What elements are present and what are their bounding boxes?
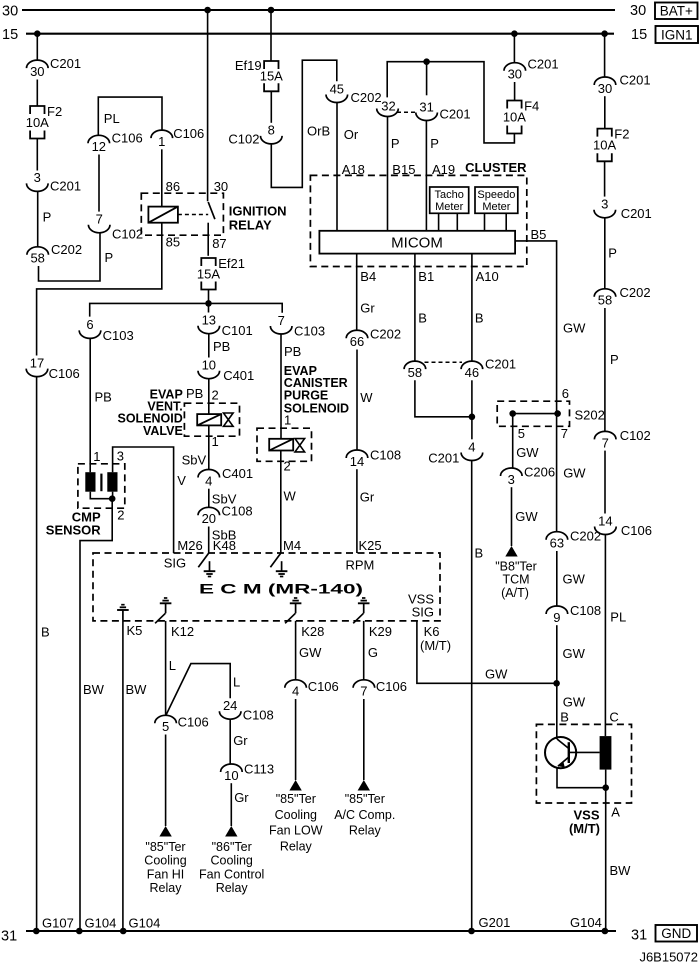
connector C102 pin 7 right	[594, 428, 650, 450]
svg-text:GW: GW	[516, 445, 539, 460]
svg-text:PL: PL	[610, 610, 626, 625]
svg-text:GW: GW	[563, 571, 586, 586]
connector C401 pin 10	[198, 358, 254, 384]
junction Ef21 / line C	[205, 300, 212, 307]
terminal triangle cooling fan HI	[159, 826, 171, 837]
node BAT+	[655, 3, 698, 20]
ECM K48 ground	[204, 561, 216, 576]
junction B wire node	[469, 414, 476, 421]
svg-text:"85"Ter: "85"Ter	[345, 792, 385, 806]
wire ECM K12 down	[165, 621, 167, 716]
svg-text:BAT+: BAT+	[660, 4, 693, 19]
svg-text:13: 13	[202, 313, 216, 328]
svg-text:P: P	[608, 246, 617, 261]
svg-text:C401: C401	[223, 368, 254, 383]
node GND	[656, 925, 698, 942]
connector C201 pin 30 right	[594, 73, 650, 96]
svg-text:4: 4	[292, 684, 299, 699]
connector C103 pin 7	[270, 313, 325, 339]
svg-text:C: C	[609, 710, 618, 725]
svg-text:SIG: SIG	[164, 556, 186, 571]
svg-text:Relay: Relay	[150, 881, 183, 895]
svg-text:B5: B5	[531, 227, 547, 242]
connector C106 pin 17	[26, 355, 79, 381]
ignition relay box	[141, 193, 223, 235]
wire C201-31 to cluster A19, colour P	[425, 120, 427, 231]
CMP sensor box	[78, 464, 125, 508]
CMP core	[100, 474, 102, 492]
svg-text:Relay: Relay	[216, 881, 249, 895]
connector C108 pin 9	[546, 603, 601, 625]
wire relay coil link dashed	[178, 214, 208, 216]
svg-text:P: P	[43, 210, 52, 225]
wire ECM K28 down	[295, 621, 297, 680]
svg-text:C202: C202	[51, 242, 82, 257]
connector C106 pin 1	[151, 126, 204, 149]
wire 30-bus to relay switch 30	[207, 10, 209, 201]
svg-text:P: P	[610, 352, 619, 367]
wire relay 85 to ground run	[37, 223, 162, 356]
svg-text:12: 12	[92, 139, 106, 154]
svg-text:3: 3	[601, 197, 608, 212]
wire MICOM B1 pin	[414, 254, 416, 362]
wire 15-bus to C201-30 right	[604, 34, 606, 77]
svg-text:C102: C102	[112, 227, 143, 242]
svg-text:E C M (MR-140): E C M (MR-140)	[199, 581, 363, 597]
wire C106-5 to triangle	[165, 735, 167, 827]
svg-text:PB: PB	[213, 339, 230, 354]
svg-text:C401: C401	[222, 466, 253, 481]
svg-text:C102: C102	[228, 132, 259, 147]
svg-text:Gr: Gr	[233, 733, 248, 748]
wire line C down to C101-13	[208, 303, 210, 312]
svg-text:17: 17	[30, 355, 44, 370]
wire tacho pin b	[456, 213, 458, 231]
svg-text:14: 14	[598, 513, 612, 528]
svg-text:31: 31	[631, 928, 647, 944]
svg-text:BW: BW	[610, 863, 632, 878]
relay switch blade	[208, 202, 215, 219]
svg-text:F2: F2	[47, 104, 62, 119]
EVAP vent solenoid valve box	[184, 403, 239, 436]
CMP coil left	[85, 472, 95, 492]
wire C201-3r to C202-58r, colour P	[604, 218, 606, 289]
wire K12 branch diagonal	[166, 664, 230, 716]
wire C108-14 to ECM K25, colour Gr	[356, 469, 358, 553]
svg-text:IGN1: IGN1	[661, 28, 693, 43]
wire C106-12 to C102-7	[98, 155, 100, 212]
svg-text:C201: C201	[485, 357, 516, 372]
junction jumper / C201-31	[423, 58, 430, 65]
svg-text:G201: G201	[479, 915, 511, 930]
connector C201 pin 31	[416, 99, 471, 121]
svg-text:P: P	[105, 250, 114, 265]
wire transistor base to pickup	[569, 751, 600, 753]
connector C101 pin 13	[198, 313, 253, 339]
svg-text:C201: C201	[620, 73, 651, 88]
svg-text:10: 10	[224, 768, 238, 783]
svg-text:W: W	[360, 390, 373, 405]
svg-text:Ef21: Ef21	[218, 256, 245, 271]
svg-text:(M/T): (M/T)	[420, 638, 451, 653]
wire ECM K5 to G104, colour BW	[122, 621, 124, 931]
svg-text:GW: GW	[563, 465, 586, 480]
wire S202-5 to C206-3, colour GW	[512, 414, 514, 469]
connector C106 pin 12	[88, 131, 143, 155]
connector C102 pin 7	[88, 212, 143, 242]
svg-text:K12: K12	[171, 624, 194, 639]
dashed link C201-58/46	[425, 361, 463, 363]
svg-text:G: G	[368, 645, 378, 660]
svg-text:CLUSTER: CLUSTER	[465, 160, 527, 175]
junction 15-bus right	[601, 30, 608, 37]
svg-text:3: 3	[117, 449, 124, 464]
svg-text:C106: C106	[376, 679, 407, 694]
wire CMP pin2 down, BW run	[80, 499, 112, 931]
fuse F2 10A right	[593, 127, 629, 162]
connector C201 pin 4	[428, 439, 482, 465]
relay coil	[148, 207, 178, 223]
svg-text:2: 2	[284, 458, 291, 473]
svg-text:10A: 10A	[503, 110, 526, 125]
svg-text:RELAY: RELAY	[229, 218, 272, 233]
wire C108-24 to C113-10, colour Gr	[229, 719, 231, 764]
svg-text:85: 85	[166, 234, 180, 249]
ECM M4 ground	[276, 561, 288, 576]
fuse F2 10A	[26, 104, 62, 139]
svg-text:7: 7	[278, 313, 285, 328]
svg-text:15A: 15A	[260, 69, 283, 84]
wire C201-30r to F2r	[604, 96, 606, 128]
wire MICOM B4 pin	[356, 254, 358, 331]
junction S202 pin 7	[554, 410, 561, 417]
svg-text:C103: C103	[294, 323, 325, 338]
connector C401 pin 4	[198, 466, 253, 488]
svg-text:30: 30	[30, 64, 44, 79]
svg-text:W: W	[284, 489, 297, 504]
svg-text:B: B	[41, 625, 50, 640]
svg-text:G104: G104	[85, 916, 117, 931]
connector C108 pin 14	[346, 447, 401, 469]
wire CMP pin3 to ECM M26, colour V	[113, 447, 174, 553]
svg-text:GND: GND	[661, 926, 691, 941]
connector C106 pin 7	[353, 679, 407, 699]
wire bus 15	[26, 33, 614, 35]
ECM K12 switch blade	[155, 613, 165, 623]
svg-text:PB: PB	[95, 390, 112, 405]
svg-text:B4: B4	[360, 269, 376, 284]
terminal triangle A/C comp	[358, 780, 370, 791]
svg-text:Fan HI: Fan HI	[147, 868, 185, 882]
wire MICOM B5 out	[515, 241, 557, 401]
ECM K12 ground	[160, 598, 172, 613]
svg-text:45: 45	[330, 81, 344, 96]
pickup element (black rectangle)	[600, 736, 612, 770]
wire ECM K29 down	[363, 621, 365, 680]
wire speedo pin a	[484, 213, 486, 231]
wire S202 internal	[513, 413, 558, 415]
wire bus 30	[22, 9, 615, 11]
svg-text:Cooling: Cooling	[275, 808, 317, 822]
svg-text:M26: M26	[177, 538, 202, 553]
svg-text:GW: GW	[563, 694, 586, 709]
wire vent valve pin1 to C401-4	[208, 425, 210, 469]
wire C202-66 to C108-14, colour W	[356, 350, 358, 451]
svg-text:C201: C201	[621, 206, 652, 221]
svg-text:8: 8	[268, 123, 275, 138]
svg-text:6: 6	[562, 386, 569, 401]
wire C101-13 to C401-10, colour PB	[208, 334, 210, 358]
wire line C	[90, 303, 283, 316]
svg-text:VALVE: VALVE	[143, 424, 183, 438]
connector C202 pin 66	[346, 327, 401, 350]
fuse Ef21 15A	[197, 256, 245, 290]
svg-text:B: B	[475, 546, 484, 561]
svg-text:30: 30	[598, 81, 612, 96]
wire F2r to C201-3r	[604, 161, 606, 196]
svg-text:"B8"Ter: "B8"Ter	[495, 559, 537, 573]
wire C201-4 to G201, colour B	[471, 460, 473, 931]
svg-text:10: 10	[202, 358, 216, 373]
svg-text:7: 7	[96, 212, 103, 227]
svg-text:Or: Or	[344, 127, 359, 142]
svg-text:C201: C201	[50, 56, 81, 71]
CMP coil right	[107, 472, 117, 492]
svg-text:C106: C106	[621, 523, 652, 538]
connector C113 pin 10	[221, 761, 275, 783]
wire C201-30 to F4	[514, 82, 516, 101]
wire VSS A to G104, colour BW	[605, 788, 607, 931]
svg-text:10A: 10A	[26, 115, 49, 130]
connector C103 pin 6	[79, 317, 133, 343]
svg-text:SbV: SbV	[182, 452, 207, 467]
svg-text:L: L	[233, 675, 240, 690]
wire C106-1 to relay coil 86	[161, 149, 163, 206]
svg-text:C106: C106	[49, 366, 80, 381]
wire C102-7r to C106-14r	[604, 451, 606, 514]
ECM K28 ground	[290, 598, 302, 613]
junction VSS A node	[602, 784, 609, 791]
wire C113-10 to triangle, colour Gr	[230, 783, 232, 826]
wire S202-6 through to 7	[556, 401, 558, 532]
wire C201-46 down through node	[471, 380, 473, 439]
svg-text:30: 30	[2, 4, 18, 20]
meter box Speedo	[475, 187, 518, 213]
purge valve symbol	[295, 439, 305, 452]
svg-text:M4: M4	[283, 538, 301, 553]
svg-text:14: 14	[350, 454, 364, 469]
ECM K28 switch blade	[285, 613, 295, 623]
svg-text:2: 2	[212, 388, 219, 403]
svg-text:K5: K5	[127, 623, 143, 638]
svg-text:24: 24	[223, 698, 237, 713]
wire C103-7 to purge valve, colour PB	[280, 334, 282, 439]
svg-text:Relay: Relay	[349, 824, 382, 838]
svg-text:3: 3	[508, 472, 515, 487]
wire C202-63 to C108-9	[556, 551, 558, 606]
svg-text:C202: C202	[351, 90, 382, 105]
svg-text:G104: G104	[129, 916, 161, 931]
svg-text:G107: G107	[42, 916, 74, 931]
terminal triangle cooling fan control	[225, 826, 237, 837]
svg-text:C206: C206	[524, 464, 555, 479]
junction CMP pin 2	[109, 495, 116, 502]
svg-text:C202: C202	[620, 285, 651, 300]
svg-text:"85"Ter: "85"Ter	[145, 840, 185, 854]
svg-text:1: 1	[284, 412, 291, 427]
junction G104 left	[76, 928, 83, 935]
svg-text:C106: C106	[178, 715, 209, 730]
junction 15-bus / C201-30	[34, 30, 41, 37]
svg-text:1: 1	[158, 134, 165, 149]
connector C201 pin 3 right	[594, 197, 652, 221]
wire C106-14r to VSS C, colour PL	[604, 534, 606, 736]
svg-text:C106: C106	[173, 126, 204, 141]
junction 15-bus / F4	[511, 30, 518, 37]
wire C202-45 to cluster A18, colour Or	[336, 102, 338, 231]
svg-text:GW: GW	[485, 666, 508, 681]
svg-text:BW: BW	[83, 682, 105, 697]
svg-text:7: 7	[561, 426, 568, 441]
svg-text:OrB: OrB	[307, 124, 330, 139]
dashed link C202-32 C201-31	[397, 111, 418, 113]
EVAP purge solenoid box	[257, 428, 312, 461]
svg-text:IGNITION: IGNITION	[229, 204, 287, 219]
connector C106 pin 14 right	[595, 513, 652, 538]
svg-text:C113: C113	[244, 761, 274, 776]
wire bus 31	[26, 930, 616, 932]
svg-text:BW: BW	[126, 682, 148, 697]
svg-text:PL: PL	[104, 111, 120, 126]
svg-text:F2: F2	[614, 127, 629, 142]
svg-text:"85"Ter: "85"Ter	[276, 792, 316, 806]
wire C106-4 to triangle	[295, 699, 297, 780]
svg-text:6: 6	[86, 317, 93, 332]
wire F4 branch top	[387, 62, 514, 143]
svg-text:58: 58	[30, 251, 44, 266]
svg-text:PB: PB	[186, 386, 203, 401]
svg-text:C108: C108	[222, 504, 253, 519]
junction G107	[33, 928, 40, 935]
svg-text:Gr: Gr	[234, 790, 249, 805]
svg-text:Gr: Gr	[360, 300, 375, 315]
svg-text:TCM: TCM	[502, 572, 529, 586]
wire relay 87 to fuse Ef21	[207, 223, 209, 256]
svg-text:87: 87	[212, 236, 226, 251]
terminal triangle TCM	[505, 546, 517, 557]
connector C201 pin 58 (B1)	[404, 361, 426, 380]
svg-text:10A: 10A	[593, 137, 616, 152]
svg-text:B: B	[475, 310, 484, 325]
svg-text:4: 4	[468, 439, 475, 454]
wire pickup down	[605, 770, 607, 788]
svg-text:7: 7	[602, 435, 609, 450]
svg-text:GW: GW	[563, 646, 586, 661]
svg-text:(M/T): (M/T)	[569, 821, 600, 836]
MICOM box	[319, 231, 515, 254]
wire speedo pin b	[505, 213, 507, 231]
svg-text:Fan Control: Fan Control	[199, 868, 264, 882]
wire C201-58 down to node	[415, 380, 472, 417]
wire C401-10 to vent valve pin2	[208, 379, 210, 415]
svg-text:5: 5	[162, 719, 169, 734]
ECM K29 ground	[358, 598, 370, 613]
connector C202 pin 45	[326, 81, 382, 105]
svg-text:SOLENOID: SOLENOID	[284, 401, 349, 415]
svg-text:C106: C106	[308, 679, 339, 694]
junction G201	[468, 928, 475, 935]
wire junction to C201-31	[426, 62, 428, 96]
wire ECM K6 to GW node	[417, 621, 557, 683]
svg-text:B: B	[418, 310, 427, 325]
wire MICOM A10 pin	[471, 254, 473, 362]
fuse F4 10A	[503, 99, 539, 134]
wire C201-3 to C202-58, colour P	[37, 191, 39, 247]
wire tacho pin a	[438, 213, 440, 231]
svg-text:"86"Ter: "86"Ter	[212, 840, 252, 854]
svg-text:A/C Comp.: A/C Comp.	[334, 808, 395, 822]
wire F2 to C201 pin3	[36, 139, 38, 171]
svg-text:GW: GW	[563, 321, 586, 336]
fuse Ef19 15A	[235, 58, 283, 91]
svg-text:C108: C108	[243, 708, 274, 723]
svg-text:G104: G104	[570, 915, 602, 930]
terminal triangle cooling fan LOW	[289, 780, 301, 791]
svg-text:PB: PB	[284, 344, 301, 359]
svg-text:9: 9	[553, 610, 560, 625]
svg-text:15: 15	[631, 27, 647, 43]
wire C108-9 to VSS B	[556, 625, 558, 739]
svg-text:Meter: Meter	[435, 201, 463, 213]
svg-text:K28: K28	[301, 624, 324, 639]
cluster box	[310, 175, 526, 266]
svg-text:7: 7	[360, 684, 367, 699]
transistor VSS	[545, 737, 576, 768]
wire C201-30 to fuse F2	[36, 80, 38, 107]
svg-text:32: 32	[381, 98, 395, 113]
svg-text:30: 30	[214, 179, 228, 194]
connector C201 pin 46	[461, 357, 516, 381]
svg-text:Relay: Relay	[280, 840, 313, 854]
vent valve coil	[197, 414, 221, 425]
svg-text:GW: GW	[515, 509, 538, 524]
svg-text:3: 3	[34, 170, 41, 185]
svg-text:63: 63	[550, 536, 564, 551]
wire C103-6 to CMP pin1, colour PB	[89, 338, 91, 472]
svg-text:C108: C108	[370, 447, 401, 462]
svg-text:58: 58	[408, 365, 422, 380]
connector C102 pin 8	[228, 123, 282, 147]
connector C206 pin 3	[501, 464, 556, 487]
svg-text:(A/T): (A/T)	[501, 586, 529, 600]
splice S202 box	[497, 401, 569, 426]
svg-text:Meter: Meter	[482, 201, 510, 213]
connector C202 pin 58	[27, 242, 82, 266]
svg-text:1: 1	[212, 434, 219, 449]
junction G104 second	[120, 928, 127, 935]
svg-text:Fan LOW: Fan LOW	[269, 824, 323, 838]
svg-text:46: 46	[465, 365, 479, 380]
svg-text:C101: C101	[222, 323, 253, 338]
svg-text:C201: C201	[440, 107, 471, 122]
svg-text:1: 1	[93, 449, 100, 464]
connector C202 pin 58 right	[594, 285, 650, 308]
wire jumper PL top	[98, 97, 162, 135]
svg-text:C108: C108	[570, 603, 601, 618]
wire transistor emitter down	[557, 768, 606, 788]
svg-text:15A: 15A	[197, 266, 220, 281]
wire 30-bus to fuse Ef19	[270, 10, 272, 61]
